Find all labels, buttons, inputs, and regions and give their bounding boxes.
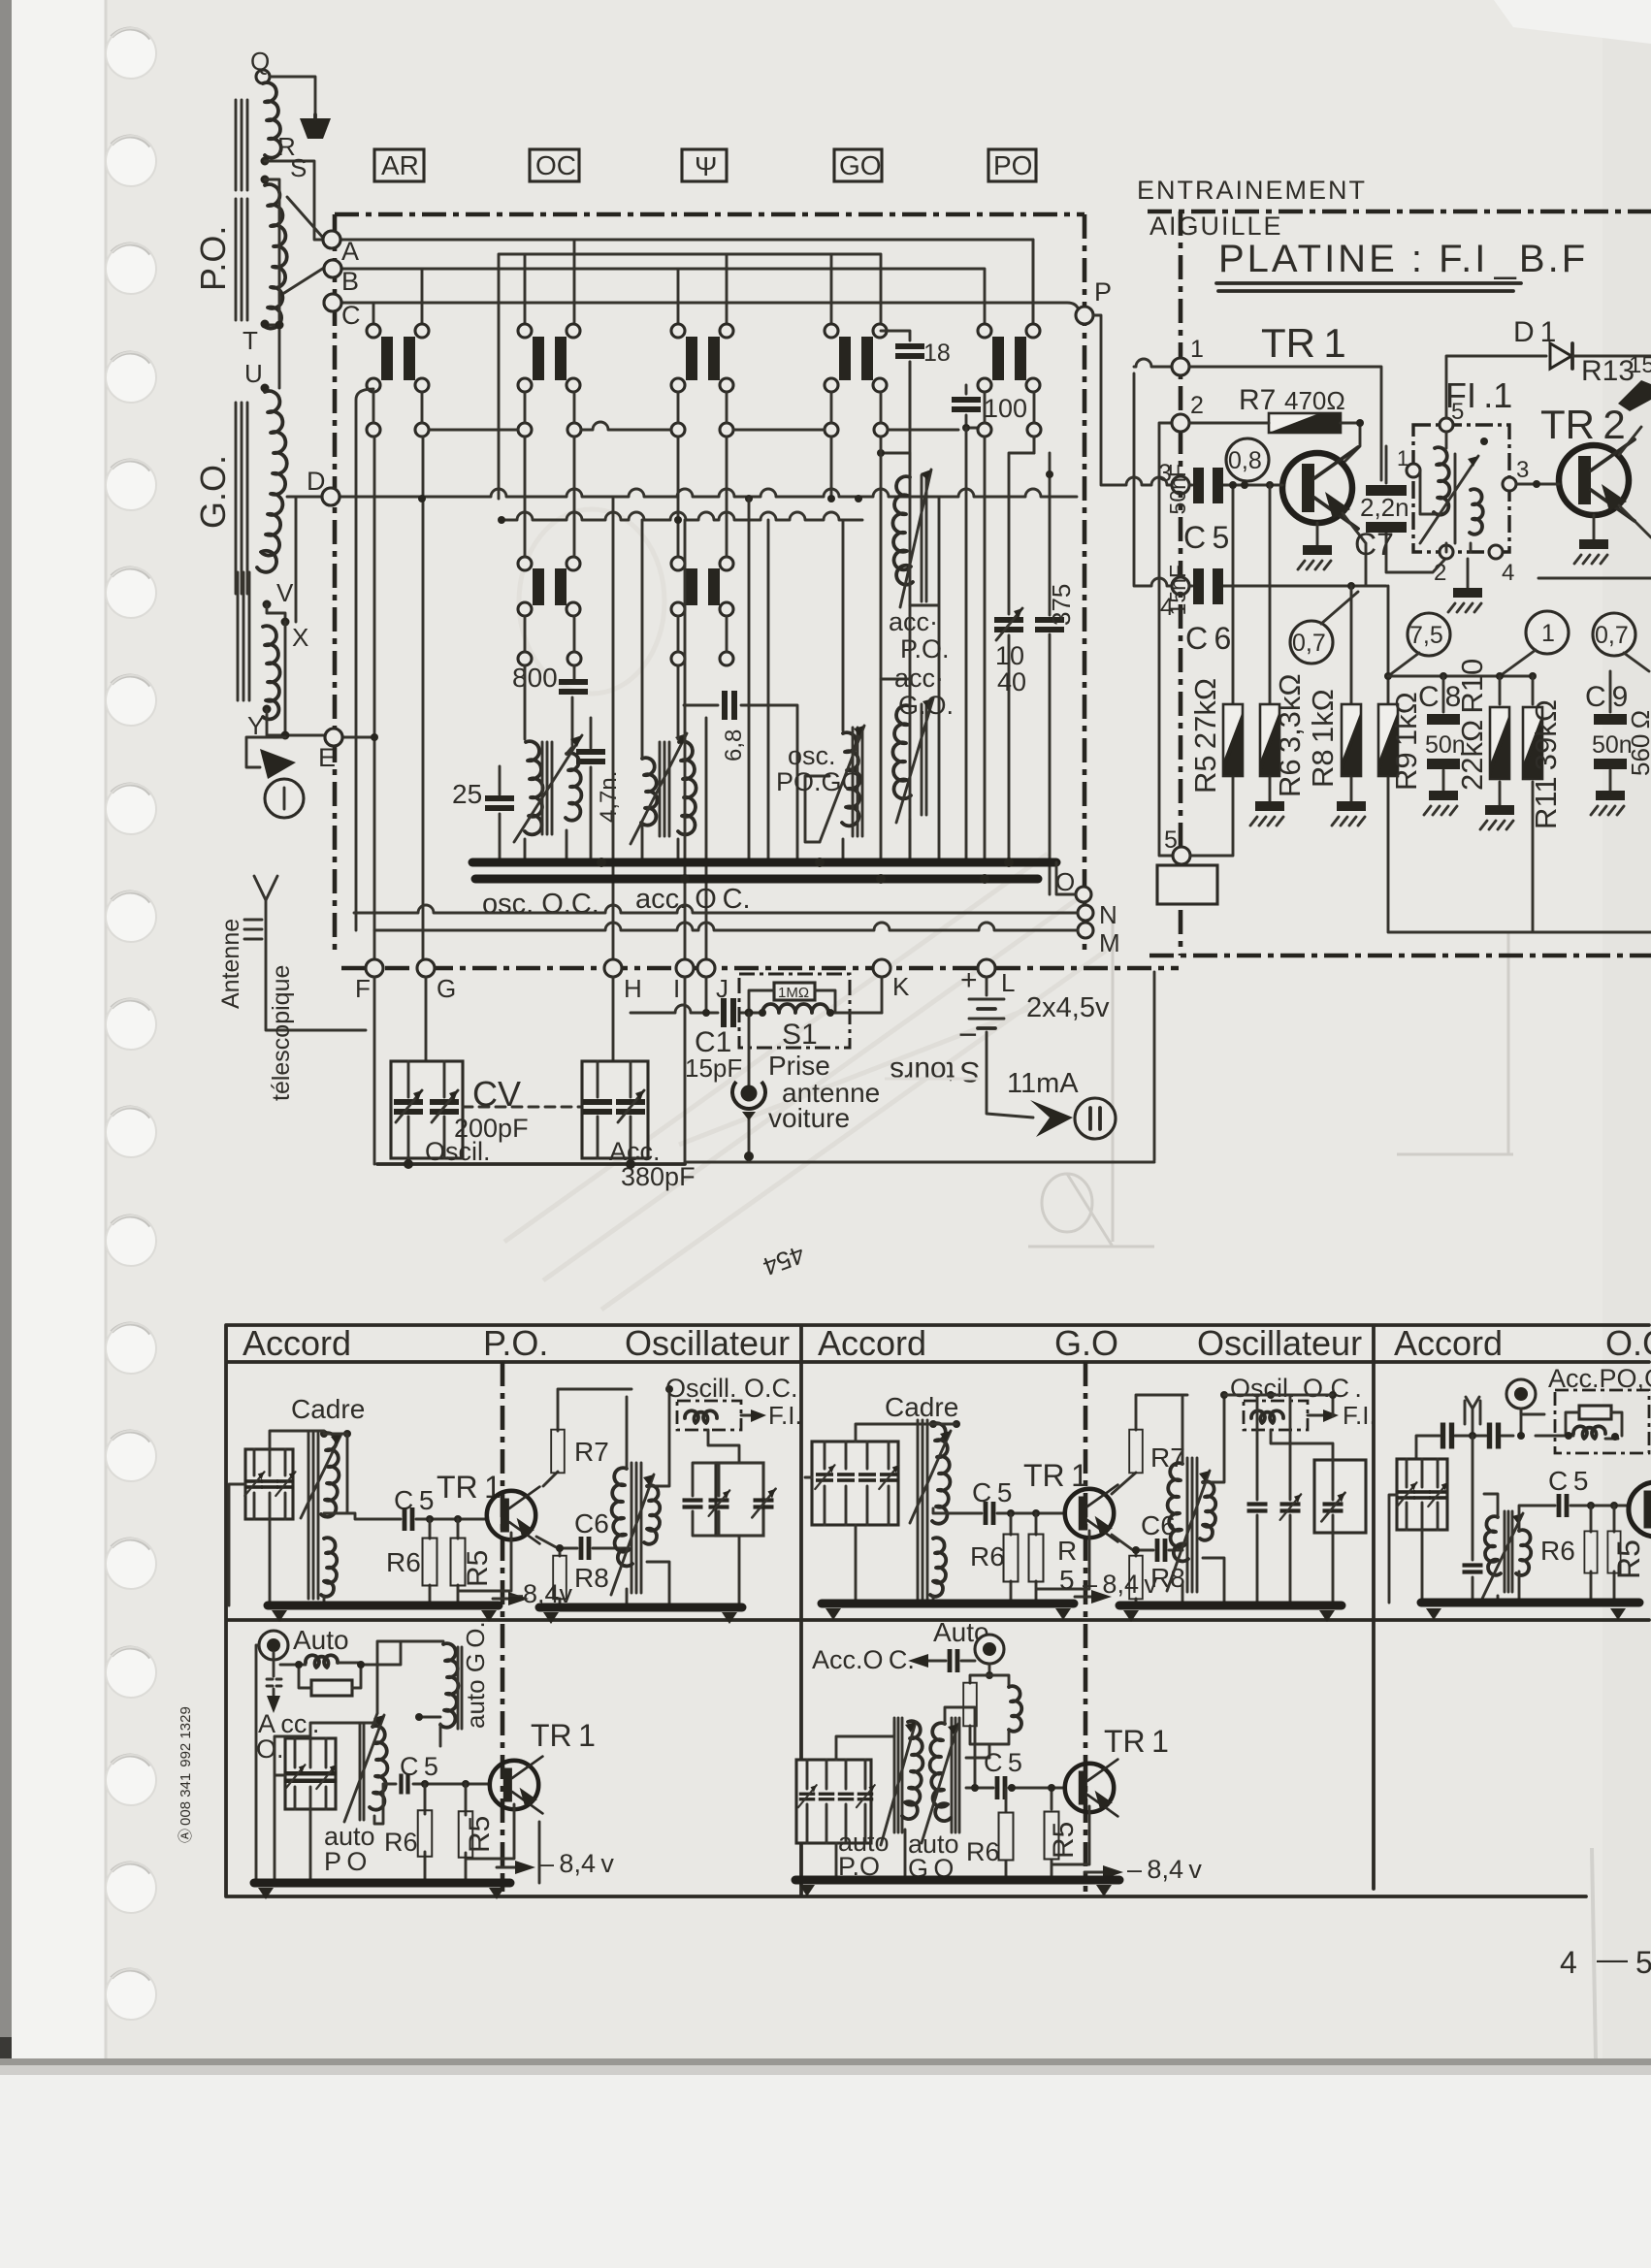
mid cap	[1472, 1436, 1474, 1603]
oscillator: R7	[543, 1389, 631, 1486]
wire lower block outline	[685, 972, 1154, 1162]
cadre transformer	[308, 1431, 318, 1599]
svg-text:5: 5	[1164, 826, 1178, 854]
wires Y/X to E	[267, 622, 325, 737]
svg-text:Acc.PO,GO: Acc.PO,GO	[1548, 1364, 1651, 1393]
R7	[1112, 1395, 1187, 1494]
node H	[604, 959, 622, 977]
R8	[1135, 1550, 1138, 1605]
svg-text:TR 1: TR 1	[531, 1718, 596, 1753]
svg-text:R13: R13	[1581, 355, 1635, 387]
R5	[458, 1519, 511, 1605]
svg-text:−: −	[958, 1017, 978, 1053]
ground bus left	[822, 1600, 1074, 1608]
svg-text:Prise: Prise	[768, 1051, 830, 1081]
svg-text:A: A	[341, 237, 359, 266]
svg-text:R8 1kΩ: R8 1kΩ	[1306, 689, 1340, 788]
svg-text:O.C: O.C	[1605, 1323, 1651, 1363]
resistor R10 22k	[1499, 676, 1502, 805]
switch ant	[671, 324, 733, 392]
box Y (antenna)	[682, 149, 727, 181]
svg-text:11mA: 11mA	[1007, 1068, 1079, 1099]
capacitor 800	[572, 665, 574, 745]
svg-text:télescopique: télescopique	[268, 965, 295, 1101]
svg-text:I: I	[673, 974, 680, 1003]
coil lower (X-Y)	[263, 626, 280, 719]
node G	[417, 959, 435, 977]
thick bus acc	[475, 875, 1038, 884]
cap box (4 caps)	[812, 1442, 898, 1525]
dashed cap + arrow Acc OC	[267, 1679, 281, 1686]
node J	[697, 959, 715, 977]
wire row2 bumps	[429, 422, 958, 430]
box AR	[374, 149, 424, 181]
cap box left	[1397, 1459, 1447, 1530]
svg-text:Y: Y	[247, 711, 264, 740]
svg-text:ENTRAINEMENT: ENTRAINEMENT	[1137, 176, 1367, 205]
acc P.O. coil	[877, 449, 950, 862]
circled I	[265, 779, 304, 818]
vertical I	[684, 977, 687, 1164]
svg-text:R6: R6	[970, 1541, 1005, 1571]
svg-text:G.O: G.O	[1054, 1323, 1118, 1363]
svg-text:Ⓐ 008 341 992 1329: Ⓐ 008 341 992 1329	[178, 1706, 194, 1843]
wire C row to P	[341, 303, 1082, 315]
svg-text:4: 4	[1502, 560, 1514, 586]
circled 0,7 right	[1593, 613, 1635, 656]
cap box accord	[245, 1449, 293, 1519]
svg-text:AIGUILLE: AIGUILLE	[1149, 211, 1283, 241]
circled 0,8	[1226, 438, 1269, 481]
CV accord section	[582, 1061, 661, 1166]
node A	[323, 231, 340, 248]
vertical G to CV	[425, 977, 428, 1061]
node X	[281, 618, 290, 627]
svg-text:P.O.: P.O.	[483, 1323, 548, 1363]
drops to switch row1	[373, 240, 1033, 324]
svg-text:Oscil. O.C .: Oscil. O.C .	[1230, 1374, 1362, 1403]
short links row1-row2	[373, 392, 1034, 423]
node B restamp	[324, 260, 341, 277]
Auto connector	[259, 1631, 288, 1660]
switch OC row3	[518, 557, 580, 616]
capacitor 375	[1049, 453, 1052, 894]
svg-text:470Ω: 470Ω	[1284, 386, 1345, 415]
svg-text:0,8: 0,8	[1228, 447, 1262, 474]
svg-text:0,7: 0,7	[1292, 630, 1326, 657]
wire AR drop left	[356, 389, 373, 930]
svg-text:X: X	[292, 623, 308, 652]
node B	[324, 260, 341, 277]
CV oscillator section	[391, 1061, 582, 1166]
svg-text:M: M	[1099, 928, 1120, 957]
top wire with caps	[1416, 1409, 1562, 1459]
ground bus right	[539, 1604, 742, 1612]
thick bottom wire	[377, 1162, 685, 1166]
svg-text:C 5: C 5	[1548, 1466, 1588, 1496]
svg-text:2: 2	[1434, 560, 1446, 586]
node 1	[1172, 358, 1189, 375]
fold crease right	[1592, 1848, 1596, 2058]
node 2	[1172, 414, 1189, 432]
coil P.O. main (S-T)	[263, 184, 287, 328]
svg-text:Ψ: Ψ	[695, 151, 717, 181]
svg-text:C 5: C 5	[984, 1748, 1022, 1777]
osc caps group	[716, 1463, 763, 1536]
verticals row2-row3	[525, 437, 727, 652]
svg-text:C7: C7	[1354, 527, 1394, 562]
row4 contact circles	[518, 652, 733, 665]
wire B row	[341, 269, 985, 324]
R6	[424, 1784, 427, 1883]
svg-text:R6: R6	[1540, 1536, 1575, 1566]
node V	[263, 600, 272, 609]
svg-text:L: L	[1001, 968, 1015, 997]
svg-text:18: 18	[923, 340, 951, 367]
box GO	[834, 149, 882, 181]
svg-text:PLATINE : F.I _B.F: PLATINE : F.I _B.F	[1218, 238, 1588, 280]
svg-text:OC: OC	[535, 150, 576, 180]
svg-text:F: F	[355, 974, 371, 1003]
switch PO	[978, 324, 1040, 392]
chassis/antenna symbol	[300, 118, 331, 139]
svg-text:F.I.: F.I.	[1343, 1401, 1376, 1430]
capacitor 100	[966, 385, 978, 428]
platine borders	[1148, 210, 1651, 214]
svg-text:R5: R5	[1048, 1822, 1080, 1859]
svg-text:15nF: 15nF	[1165, 565, 1190, 615]
svg-text:5: 5	[1059, 1565, 1075, 1595]
C1 capacitor	[631, 977, 718, 1013]
svg-text:acc·: acc·	[894, 664, 944, 693]
svg-text:6,8: 6,8	[721, 729, 747, 761]
svg-text:N: N	[1099, 900, 1117, 929]
svg-text:22kΩ R10: 22kΩ R10	[1455, 659, 1489, 791]
wire pin5 to D1	[1446, 356, 1546, 418]
caps right	[1314, 1460, 1366, 1533]
C6 15nF	[1189, 585, 1386, 588]
svg-text:– 8,4 v: – 8,4 v	[1083, 1570, 1157, 1599]
svg-text:TR 2: TR 2	[1540, 402, 1626, 447]
thick bus osc	[472, 859, 1056, 867]
switch OC	[518, 324, 580, 392]
svg-text:– 8,4 v: – 8,4 v	[1127, 1855, 1202, 1884]
circled 0,7	[1290, 621, 1333, 664]
svg-text:5: 5	[1451, 399, 1464, 425]
tap wire S vertical	[265, 179, 279, 388]
small box below node 5	[1157, 865, 1217, 904]
wire to M	[374, 923, 1078, 930]
svg-text:G: G	[437, 974, 456, 1003]
svg-text:osc. O.C.: osc. O.C.	[482, 889, 599, 920]
row2 contact circles	[367, 423, 1041, 437]
-8,4v	[497, 1866, 524, 1869]
svg-text:Acc.O C.: Acc.O C.	[812, 1645, 915, 1674]
svg-text:15pF: 15pF	[685, 1053, 742, 1083]
vertical F to CV bottom	[373, 977, 376, 1164]
svg-text:H: H	[624, 974, 642, 1003]
svg-text:K: K	[892, 972, 910, 1001]
svg-text:– 8,4 v: – 8,4 v	[539, 1849, 614, 1878]
ground bus left	[268, 1602, 499, 1610]
svg-text:Cadre: Cadre	[885, 1392, 958, 1422]
gap wires P to nodes	[1093, 315, 1172, 485]
svg-text:O: O	[1055, 867, 1075, 896]
svg-text:acc·: acc·	[889, 607, 938, 636]
capacitor 18	[881, 331, 910, 427]
ground bus	[795, 1876, 1119, 1885]
panels outer borders	[226, 1325, 1649, 1896]
resistor R8	[1350, 586, 1353, 801]
vertical H to CV acc	[612, 977, 615, 1061]
svg-text:S: S	[290, 153, 307, 182]
coil P.O. upper (Q-R)	[263, 82, 281, 157]
svg-text:1: 1	[1190, 336, 1204, 363]
ground bus	[1421, 1599, 1639, 1607]
R5	[1036, 1513, 1089, 1604]
svg-text:B: B	[341, 267, 359, 296]
-8,4v arrow	[493, 1598, 520, 1601]
dash-dot border left	[333, 214, 338, 956]
C5 50nF	[1189, 484, 1282, 487]
svg-text:TR 1: TR 1	[1023, 1458, 1088, 1493]
switch GO	[825, 324, 887, 392]
svg-text:C 6: C 6	[1185, 621, 1231, 656]
svg-text:voiture: voiture	[768, 1103, 850, 1133]
svg-text:Antenne: Antenne	[217, 919, 244, 1009]
R6	[1590, 1506, 1593, 1603]
svg-text:R7: R7	[574, 1437, 609, 1467]
node K	[873, 959, 890, 977]
resistor R9	[1388, 586, 1651, 932]
transistor TR1	[1282, 447, 1358, 529]
svg-text:R5: R5	[1611, 1539, 1646, 1579]
diagonal B to coil	[284, 268, 324, 293]
box PO	[988, 149, 1036, 181]
svg-text:R6: R6	[966, 1837, 1000, 1866]
svg-text:C 9: C 9	[1585, 681, 1628, 713]
capacitor 6,8	[684, 705, 797, 862]
FI1 coils	[1434, 447, 1449, 514]
auto input coil + resistor	[306, 1655, 338, 1668]
node Q	[256, 70, 270, 83]
wire D to coil tap	[287, 497, 322, 622]
svg-text:P.O.: P.O.	[193, 226, 233, 291]
antenna mark	[1465, 1397, 1480, 1436]
svg-text:C: C	[341, 301, 361, 330]
node Y	[263, 705, 272, 714]
svg-text:800: 800	[512, 663, 558, 693]
svg-text:+: +	[960, 964, 978, 996]
capacitor C9 50n	[1609, 671, 1612, 791]
acc O.C. transformer	[631, 520, 696, 862]
R5	[1052, 1788, 1089, 1880]
dash box acc po go	[1555, 1390, 1649, 1453]
node C restamp	[324, 294, 341, 311]
osc transformer	[1187, 1458, 1197, 1592]
svg-text:C 5: C 5	[400, 1752, 438, 1781]
svg-text:Oscillateur: Oscillateur	[625, 1323, 790, 1363]
resistor + coil	[970, 1675, 1009, 1685]
dash-dot F..L row	[341, 966, 1179, 971]
resistor R6	[1269, 485, 1272, 801]
switch AR	[367, 324, 429, 392]
node D	[322, 488, 340, 505]
svg-text:10: 10	[995, 641, 1024, 670]
node C	[324, 294, 341, 311]
wire to N	[354, 905, 1078, 913]
svg-text:2x4,5v: 2x4,5v	[1026, 992, 1110, 1023]
svg-text:Oscillateur: Oscillateur	[1197, 1323, 1362, 1363]
FI.1 box	[1397, 375, 1529, 586]
svg-text:1MΩ: 1MΩ	[778, 985, 809, 1001]
svg-text:2,2n: 2,2n	[1360, 493, 1409, 522]
svg-text:40: 40	[997, 667, 1026, 697]
node 4	[1172, 577, 1189, 595]
svg-text:2: 2	[1190, 392, 1204, 419]
R5	[466, 1784, 514, 1883]
R6	[1010, 1513, 1013, 1604]
capacitor 25	[499, 766, 502, 862]
svg-text:15: 15	[1629, 352, 1651, 378]
R8	[559, 1548, 562, 1607]
capacitor 10-40 variable	[1009, 437, 1034, 862]
svg-text:0,7: 0,7	[1595, 622, 1629, 649]
node F	[366, 959, 383, 977]
svg-text:P O: P O	[324, 1847, 367, 1876]
svg-text:R11 39kΩ: R11 39kΩ	[1529, 699, 1563, 829]
node E	[325, 729, 342, 746]
svg-text:P: P	[1094, 277, 1112, 307]
svg-text:Oscill. O.C.: Oscill. O.C.	[665, 1374, 798, 1403]
antenna telescopique	[217, 876, 366, 1101]
transformer auto PO	[894, 1718, 902, 1832]
svg-text:375: 375	[1047, 584, 1076, 626]
core lines	[236, 100, 247, 190]
svg-text:V: V	[276, 578, 294, 607]
switch ant row3	[671, 557, 733, 616]
wire V-X	[267, 604, 285, 622]
node D restamp	[322, 488, 340, 505]
svg-text:R5: R5	[464, 1816, 496, 1853]
svg-text:F.I.: F.I.	[768, 1401, 802, 1430]
bottom underlying sheet	[0, 2061, 1651, 2268]
svg-text:R5 27kΩ: R5 27kΩ	[1188, 678, 1222, 794]
svg-text:1: 1	[1541, 620, 1555, 647]
node P	[1076, 307, 1093, 324]
node E restamp	[325, 729, 342, 746]
svg-text:Q: Q	[250, 47, 270, 76]
node 5	[1173, 847, 1190, 864]
TR1 partial	[1629, 1477, 1651, 1541]
svg-text:Oscil.: Oscil.	[425, 1137, 491, 1166]
svg-text:S tours: S tours	[890, 1055, 980, 1087]
node I	[676, 959, 694, 977]
svg-text:T: T	[243, 326, 258, 355]
C7 2,2n	[1386, 446, 1446, 572]
FI1 ground	[1467, 559, 1470, 588]
svg-text:Accord: Accord	[818, 1323, 926, 1363]
capacitor C8 50n	[1442, 676, 1445, 791]
svg-text:Cadre: Cadre	[291, 1394, 365, 1424]
capacitor 4,7n	[590, 718, 593, 862]
R6	[1005, 1788, 1008, 1880]
cap box	[285, 1738, 336, 1809]
auto G.O. coil	[440, 1643, 458, 1727]
diagonal A to coil	[287, 197, 323, 238]
resistor R11 39k	[1532, 676, 1535, 932]
wire A row	[340, 240, 1033, 324]
svg-text:560 Ω: 560 Ω	[1626, 710, 1651, 776]
svg-text:25: 25	[452, 779, 482, 809]
svg-text:100: 100	[984, 394, 1027, 423]
svg-text:—: —	[1597, 1941, 1628, 1976]
osc PO.GO transformer	[776, 520, 864, 862]
prise antenne voiture connector	[732, 1013, 880, 1161]
svg-text:Auto: Auto	[293, 1625, 349, 1655]
svg-text:auto G O.: auto G O.	[461, 1621, 490, 1729]
svg-text:5: 5	[1635, 1945, 1651, 1980]
wire Q to antenna ground	[270, 77, 315, 114]
coil G.O. (U-V)	[257, 391, 287, 572]
node R	[261, 157, 270, 166]
node U	[261, 384, 270, 393]
svg-text:osc.: osc.	[788, 741, 836, 770]
svg-text:R6: R6	[386, 1547, 421, 1577]
svg-text:R8: R8	[574, 1563, 609, 1593]
wire D row with bumps	[340, 489, 1077, 497]
ground bus	[254, 1879, 510, 1888]
wire E to matrix	[342, 736, 374, 739]
node A restamp	[323, 231, 340, 248]
svg-text:R6 3,3kΩ: R6 3,3kΩ	[1273, 673, 1307, 797]
cap box	[796, 1760, 871, 1843]
svg-text:7,5: 7,5	[1409, 622, 1443, 649]
svg-text:P.O.: P.O.	[900, 634, 950, 664]
svg-text:TR 1: TR 1	[1104, 1724, 1169, 1759]
svg-text:C 5: C 5	[1183, 520, 1229, 555]
svg-text:4,7n.: 4,7n.	[596, 771, 622, 823]
node S	[261, 176, 270, 184]
svg-text:4: 4	[1560, 1945, 1577, 1980]
left wire down	[256, 1645, 259, 1883]
svg-text:R5: R5	[462, 1550, 494, 1587]
circled 7,5	[1408, 613, 1450, 656]
svg-text:50nF: 50nF	[1165, 464, 1190, 514]
wire second bus row with bumps	[502, 512, 862, 520]
matrix verticals	[374, 362, 1034, 961]
svg-text:U: U	[244, 359, 263, 388]
wire R-A	[265, 161, 323, 240]
svg-text:R6: R6	[384, 1828, 418, 1857]
svg-text:R: R	[1057, 1536, 1077, 1566]
arrow I	[260, 749, 296, 779]
svg-text:R7: R7	[1150, 1442, 1185, 1473]
emitter join	[1343, 513, 1366, 586]
dash-dot column dividers	[501, 1362, 505, 1892]
svg-text:TR 1: TR 1	[1261, 320, 1346, 366]
svg-text:S1: S1	[782, 1019, 818, 1051]
wire node1 to collector	[1189, 367, 1381, 480]
wire to O	[1056, 862, 1076, 894]
battery 2x4,5v	[958, 964, 1110, 1118]
-8,4v	[1084, 1871, 1112, 1874]
arrow to II	[1030, 1100, 1073, 1137]
svg-text:R7: R7	[1239, 384, 1276, 416]
dash-dot border right	[1083, 214, 1087, 956]
svg-text:G.O.: G.O.	[898, 691, 954, 720]
svg-text:AR: AR	[381, 150, 419, 180]
